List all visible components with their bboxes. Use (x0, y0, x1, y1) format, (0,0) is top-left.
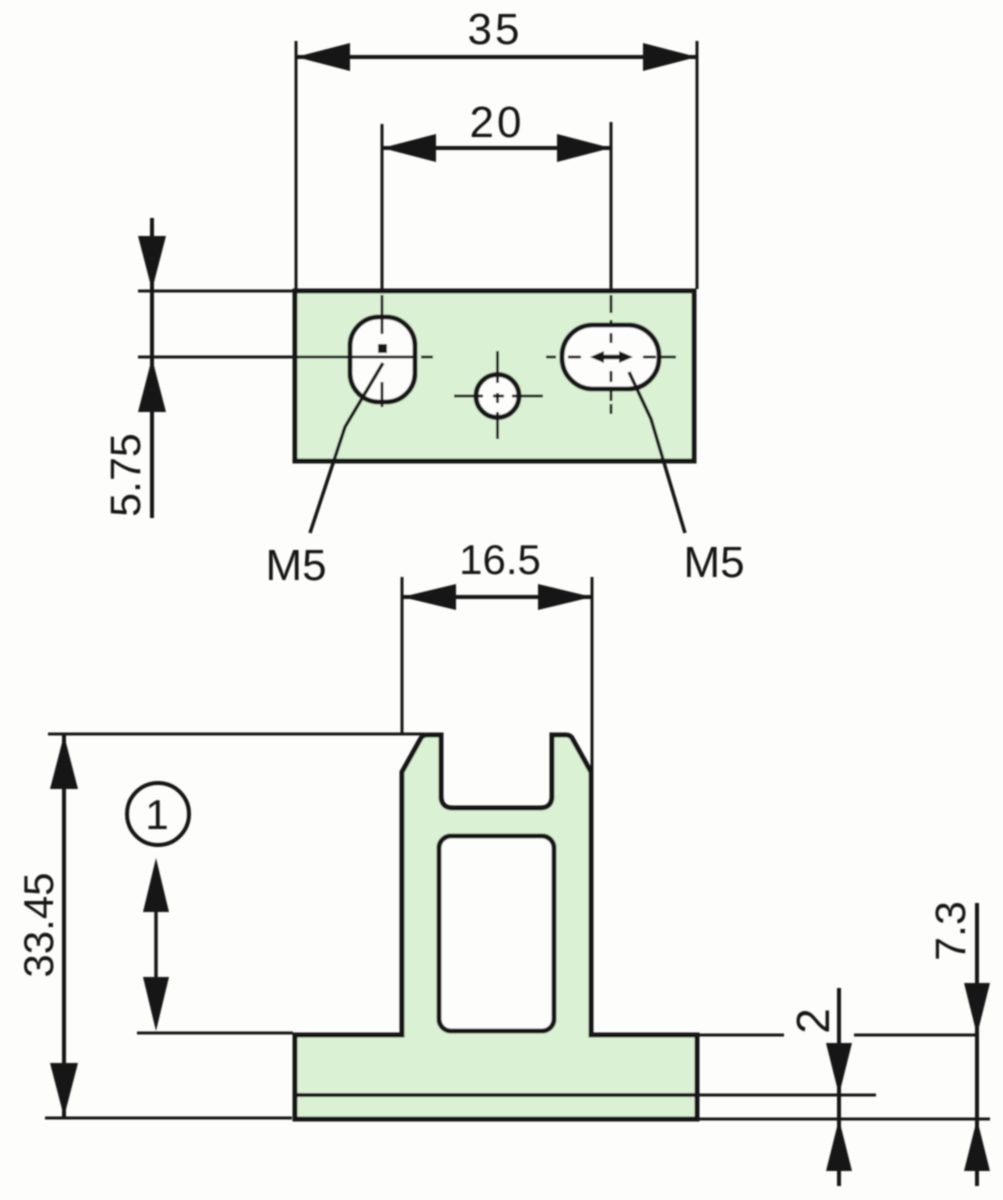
svg-text:M5: M5 (265, 541, 326, 590)
svg-text:35: 35 (468, 5, 523, 54)
svg-text:16.5: 16.5 (459, 536, 541, 583)
svg-text:1: 1 (145, 791, 168, 838)
svg-text:5.75: 5.75 (102, 433, 150, 517)
svg-text:20: 20 (470, 98, 525, 147)
svg-text:33.45: 33.45 (15, 872, 62, 977)
svg-text:7.3: 7.3 (927, 901, 975, 961)
svg-text:M5: M5 (683, 538, 744, 587)
svg-text:2: 2 (787, 1008, 839, 1034)
